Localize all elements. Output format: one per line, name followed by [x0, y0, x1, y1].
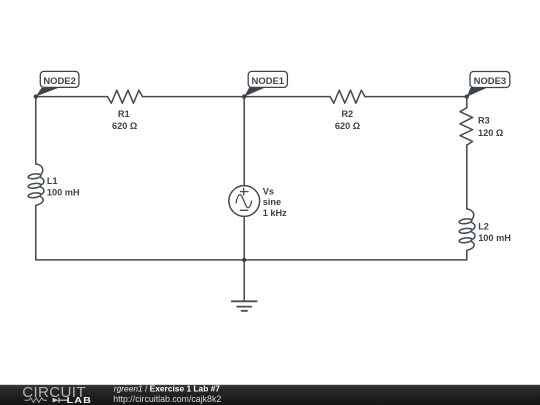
resistor R1 [108, 90, 143, 103]
resistor R2 [330, 90, 365, 103]
callout pointer NODE1 [244, 87, 265, 96]
wire right vertical: R3 to L2 [466, 145, 468, 209]
node dot NODE1 [242, 94, 246, 98]
svg-text:L1: L1 [47, 176, 58, 186]
inductor L1 [28, 164, 44, 206]
svg-text:NODE1: NODE1 [252, 76, 285, 87]
wire right vertical: L2 to bottom [466, 250, 468, 260]
svg-text:NODE2: NODE2 [43, 76, 76, 87]
node dot NODE2 [34, 94, 38, 98]
svg-text:LAB: LAB [67, 396, 92, 405]
wire top: NODE1 to R2 [244, 96, 330, 98]
svg-text:R3: R3 [478, 116, 490, 126]
callout pointer NODE3 [467, 88, 488, 97]
ground bars [232, 301, 257, 311]
voltage source minus sign [240, 209, 248, 211]
node label NODE1 [248, 71, 287, 87]
svg-text:R1: R1 [118, 109, 130, 119]
svg-text:620 Ω: 620 Ω [335, 121, 360, 131]
svg-text:sine: sine [263, 197, 281, 207]
voltage source plus sign [240, 188, 248, 195]
svg-text:100 mH: 100 mH [47, 188, 80, 198]
voltage source Vs sine wave [236, 195, 252, 208]
node dot ground junction [242, 258, 246, 262]
wire left vertical: NODE2 down to L1 [35, 97, 37, 164]
node dot NODE3 [465, 94, 469, 98]
node label NODE2 [40, 71, 79, 87]
wire top: R1 to NODE1 [143, 96, 245, 98]
wire top: NODE2 to R1 [36, 96, 108, 98]
ground stem [243, 260, 245, 301]
voltage source Vs circle [229, 186, 260, 217]
svg-text:NODE3: NODE3 [474, 76, 507, 87]
svg-text:rgreen1 / Exercise 1 Lab #7: rgreen1 / Exercise 1 Lab #7 [114, 384, 221, 394]
svg-text:L2: L2 [478, 222, 489, 232]
wire bottom [36, 259, 467, 261]
resistor R3 [460, 108, 473, 146]
wire top: R2 to NODE3 [365, 96, 467, 98]
footer bar [0, 385, 540, 405]
wire right vertical: NODE3 to R3 [466, 97, 468, 108]
callout pointer NODE2 [36, 88, 58, 97]
svg-text:620 Ω: 620 Ω [112, 121, 137, 131]
svg-text:1 kHz: 1 kHz [263, 208, 287, 218]
CircuitLab logo squiggle wire [25, 398, 47, 403]
CircuitLab logo diode [53, 398, 59, 403]
wire center vertical: Vs to bottom [243, 216, 245, 260]
inductor L2 [459, 209, 475, 251]
wire left vertical: L1 to bottom [35, 205, 37, 260]
svg-text:120 Ω: 120 Ω [478, 128, 503, 138]
node label NODE3 [470, 72, 510, 88]
svg-text:R2: R2 [341, 109, 353, 119]
svg-text:100 mH: 100 mH [478, 233, 511, 243]
svg-text:http://circuitlab.com/cajk8k2: http://circuitlab.com/cajk8k2 [113, 394, 221, 404]
wire center vertical: NODE1 to Vs [243, 97, 245, 186]
svg-text:Vs: Vs [263, 186, 274, 196]
